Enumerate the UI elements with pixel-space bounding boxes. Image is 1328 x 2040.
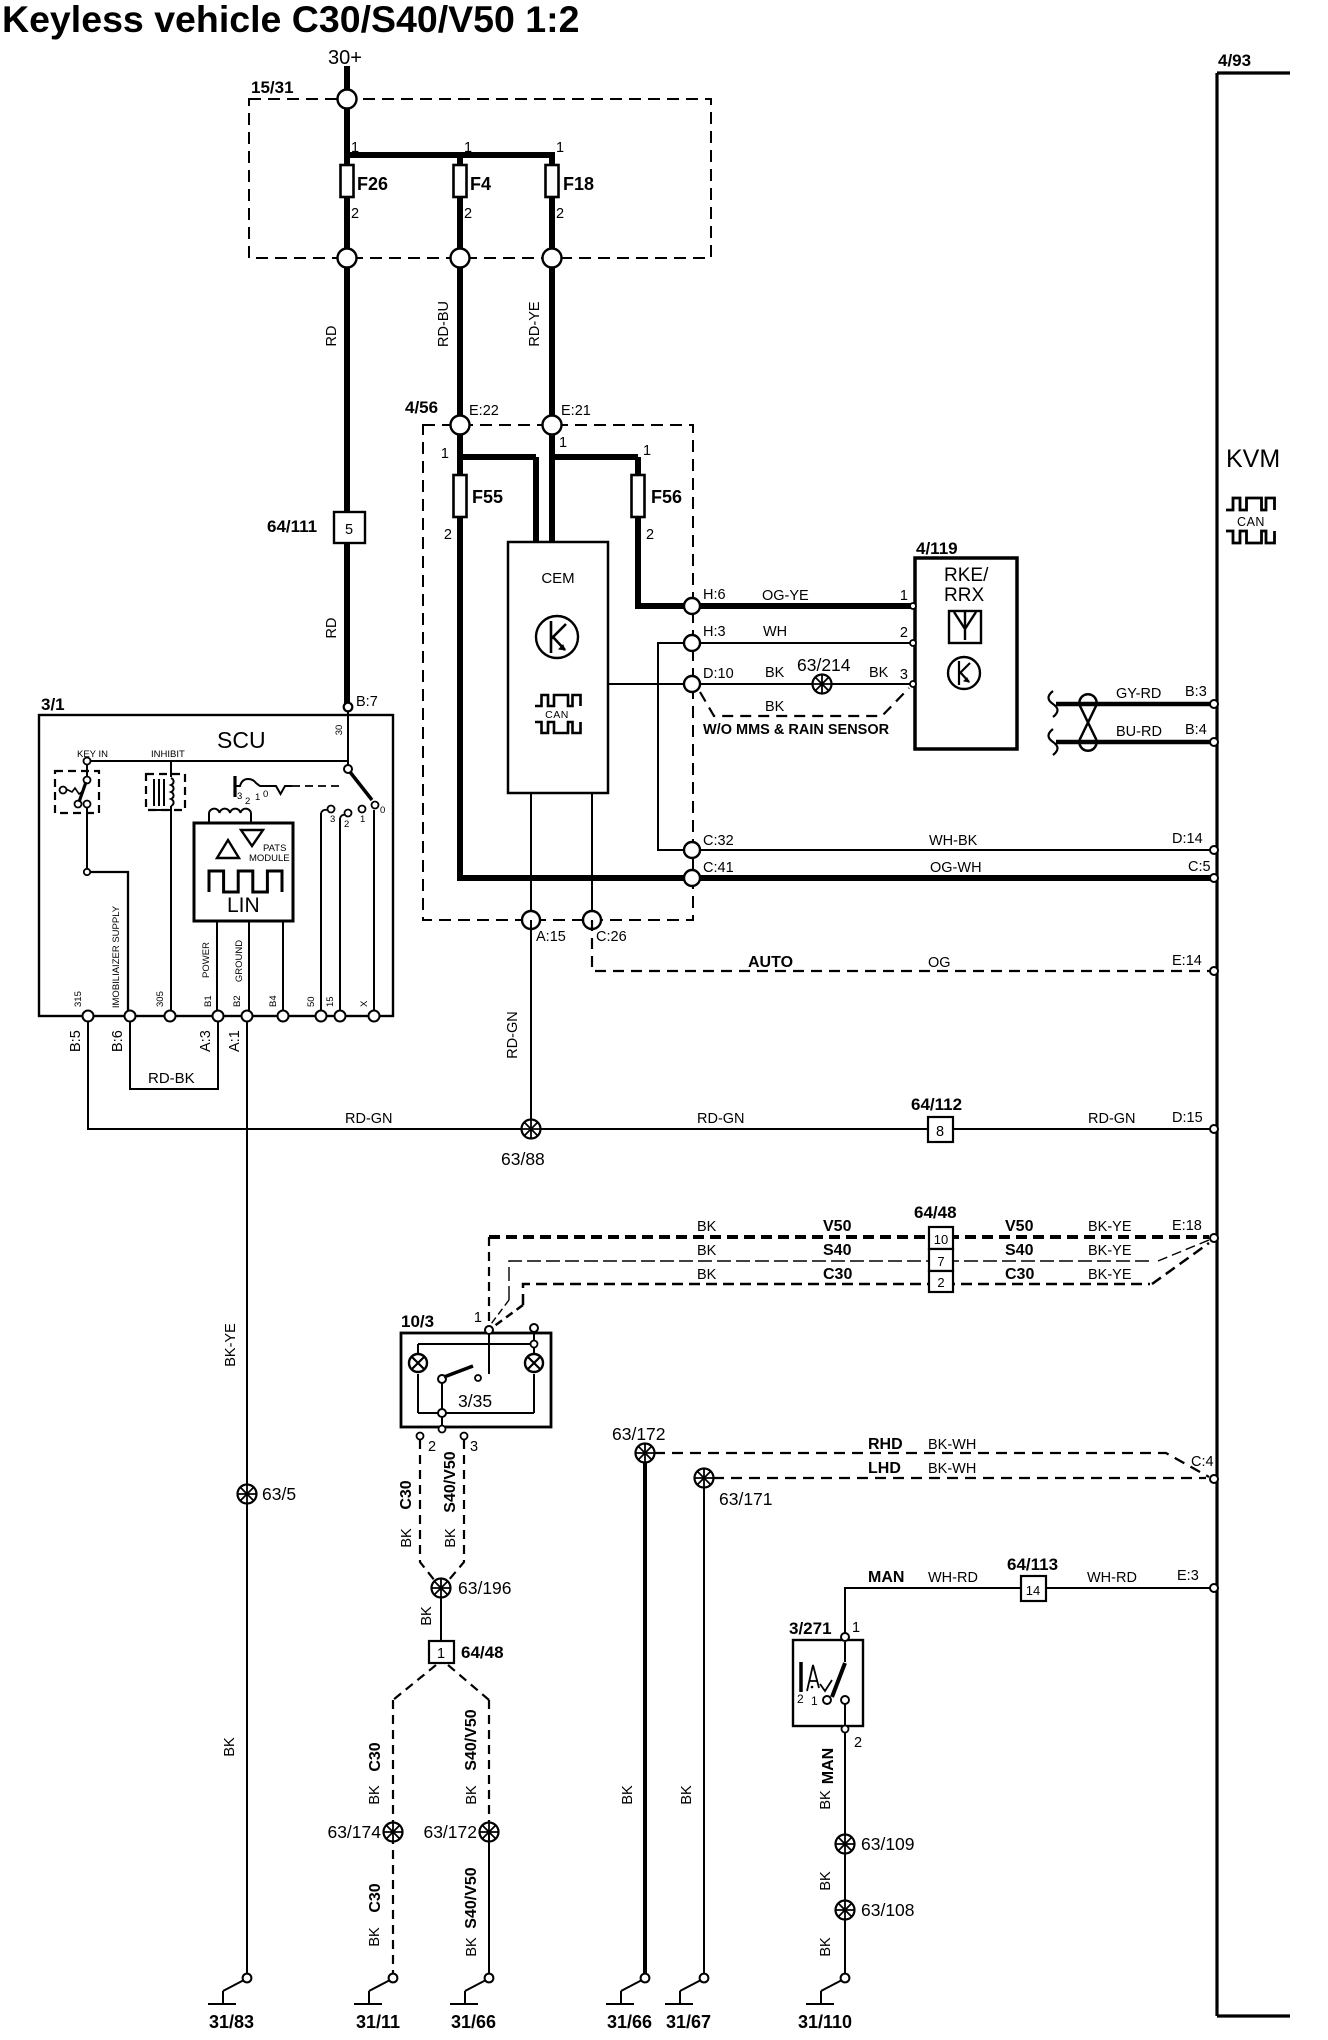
wire RD lower [344,543,350,706]
module 4/93 KVM box [1215,73,1218,2016]
svg-text:B:6: B:6 [110,1030,126,1052]
10/3 pin 1 [485,1326,493,1334]
svg-text:RHD: RHD [868,1436,903,1453]
svg-text:63/88: 63/88 [501,1149,545,1169]
wire C30 BK to 31/11 [392,1700,394,1978]
junction 15/31 bottom F26 [338,249,357,268]
RKE pin 3 [910,681,916,687]
svg-text:8: 8 [936,1124,944,1140]
junction 15/31 bottom F4 [451,249,470,268]
svg-text:BK: BK [869,665,889,681]
svg-text:2: 2 [556,206,564,222]
3/271 internals [844,1642,846,1662]
svg-text:E:21: E:21 [561,403,591,419]
10/3 right pin wire [533,1331,535,1353]
junction D:10 [684,676,700,692]
wire F55 branch [457,425,463,477]
SCU main switch [344,765,352,773]
module 4/119 RKE/RRX box [915,558,1017,749]
svg-text:B:4: B:4 [1185,722,1207,738]
node D:14 [1210,846,1218,854]
svg-text:WH-BK: WH-BK [929,833,978,849]
wire F56 branch [549,425,555,544]
svg-text:BK-YE: BK-YE [1088,1267,1132,1283]
svg-text:RD-GN: RD-GN [697,1111,745,1127]
svg-text:BK: BK [464,1937,480,1957]
svg-text:7: 7 [937,1254,944,1269]
wire RD-GN from A:15 to 63/88 [530,920,532,1129]
svg-text:RRX: RRX [944,585,984,606]
svg-text:H:6: H:6 [703,587,726,603]
svg-text:63/196: 63/196 [458,1578,512,1598]
wire BK thick to 31/66 [643,1453,647,1978]
wire CEM C:26 pin [591,793,593,920]
svg-text:C:4: C:4 [1191,1454,1214,1470]
svg-text:Keyless vehicle C30/S40/V50 1:: Keyless vehicle C30/S40/V50 1:2 [2,0,579,40]
svg-text:S40/V50: S40/V50 [442,1451,459,1512]
svg-text:63/174: 63/174 [327,1822,381,1842]
svg-text:BK: BK [399,1528,415,1548]
junction 15/31 bottom F18 [543,249,562,268]
twisted pair symbol [1049,691,1058,717]
svg-text:64/48: 64/48 [461,1643,504,1662]
svg-text:1: 1 [464,140,472,156]
KEY IN switch [55,771,99,813]
svg-text:3/35: 3/35 [458,1391,492,1411]
node B:4 [1210,738,1218,746]
node B:3 [1210,700,1218,708]
svg-text:WH: WH [763,624,787,640]
svg-text:X: X [359,1000,370,1007]
svg-text:C30: C30 [367,1742,384,1771]
10/3 pin 3 [461,1433,468,1440]
svg-text:S40/V50: S40/V50 [463,1867,480,1928]
svg-text:B4: B4 [268,995,279,1007]
svg-text:63/172: 63/172 [612,1424,666,1444]
svg-text:BK: BK [765,699,785,715]
wire RD-GN row [88,1021,1213,1129]
svg-text:W/O MMS & RAIN SENSOR: W/O MMS & RAIN SENSOR [703,722,890,738]
svg-text:10: 10 [934,1232,948,1247]
svg-text:BK: BK [697,1219,717,1235]
PATS triangles [217,840,239,858]
PATS coil [208,813,210,823]
junction C:41 [684,870,700,886]
svg-text:31/66: 31/66 [451,2012,496,2032]
svg-text:1: 1 [852,1620,860,1636]
connector 64/112 pin 8 [928,1117,953,1142]
svg-text:GROUND: GROUND [234,940,245,982]
fuse F55 [454,475,467,517]
svg-text:D:14: D:14 [1172,831,1203,847]
fuse F4 [454,165,467,197]
svg-text:3: 3 [900,667,908,683]
svg-text:IMOBILIAIZER SUPPLY: IMOBILIAIZER SUPPLY [111,905,122,1008]
svg-text:H:3: H:3 [703,624,726,640]
svg-text:MAN: MAN [868,1569,904,1586]
wire C30 split [393,1665,436,1700]
svg-text:63/214: 63/214 [797,655,851,675]
PATS LIN wave [209,871,282,892]
junction H:3 [684,635,700,651]
splice 63/88 [522,1120,541,1139]
svg-text:63/171: 63/171 [719,1489,773,1509]
module 4/56 dashed outline [423,425,693,920]
wire LHD BK-WH dashed [713,1477,1206,1479]
wire C30 row [523,1284,1150,1305]
wire WH-BK row [692,849,1213,851]
ground 31/11 [389,1974,398,1983]
wire RHD BK-WH dashed [654,1453,1209,1477]
ground 31/67 [700,1974,709,1983]
svg-text:1: 1 [255,792,260,803]
wire H:3 to C:32 internal [658,643,692,850]
svg-text:BK: BK [367,1785,383,1805]
10/3 top right pin [530,1324,538,1332]
svg-text:3/1: 3/1 [41,695,65,714]
svg-text:31/67: 31/67 [666,2012,711,2032]
junction E:22 [451,416,470,435]
module 3/271 box [793,1640,863,1726]
ground 31/110 [841,1974,850,1983]
SCU pin 305 [165,1011,176,1022]
RKE pin 1 [910,603,916,609]
10/3 lamp right [525,1354,543,1372]
svg-text:RKE/: RKE/ [944,565,989,586]
svg-text:OG-YE: OG-YE [762,588,809,604]
CEM CAN symbol [535,695,581,706]
svg-text:B:3: B:3 [1185,684,1207,700]
svg-text:BK: BK [818,1871,834,1891]
svg-text:MAN: MAN [820,1748,837,1784]
svg-text:B:7: B:7 [356,694,378,710]
svg-text:OG-WH: OG-WH [930,860,982,876]
wire pin 15 [339,818,341,1016]
svg-text:D:10: D:10 [703,666,734,682]
svg-text:INHIBIT: INHIBIT [151,749,185,760]
svg-text:50: 50 [306,996,317,1007]
ground 31/66 left [485,1974,494,1983]
svg-text:BK: BK [222,1737,238,1757]
wire F55 to C:41 [457,514,463,881]
svg-text:4/93: 4/93 [1218,51,1251,70]
svg-text:B:5: B:5 [68,1030,84,1052]
svg-text:C:32: C:32 [703,833,734,849]
SCU pin A:3 [213,1011,224,1022]
svg-text:D:15: D:15 [1172,1110,1203,1126]
10/3 lamp left [409,1354,427,1372]
svg-text:F26: F26 [357,174,388,194]
wire BK to 64/48 pin 1 [440,1598,442,1641]
SCU pin X [369,1011,380,1022]
svg-text:30: 30 [334,725,345,736]
svg-text:WH-RD: WH-RD [1087,1570,1137,1586]
svg-text:63/108: 63/108 [861,1900,915,1920]
svg-text:E:3: E:3 [1177,1568,1199,1584]
wire V50 BK-YE row [489,1235,1209,1239]
wire pin 50 [320,813,322,1016]
svg-text:4/56: 4/56 [405,398,438,417]
svg-text:BK-YE: BK-YE [1088,1219,1132,1235]
svg-text:305: 305 [155,991,166,1007]
svg-text:OG: OG [928,955,951,971]
svg-text:14: 14 [1026,1583,1040,1598]
wire RD-YE [549,196,555,425]
svg-text:RD-YE: RD-YE [527,301,543,346]
svg-text:B2: B2 [232,995,243,1007]
svg-text:S40: S40 [1005,1242,1034,1259]
wire GY-RD [1056,702,1213,707]
svg-text:64/113: 64/113 [1007,1555,1058,1574]
svg-text:RD-GN: RD-GN [1088,1111,1136,1127]
svg-text:RD: RD [324,326,340,347]
wire PATS ground pin [248,921,250,1016]
wire S40/V50 BK to 31/66 [488,1700,490,1832]
svg-text:BK: BK [464,1785,480,1805]
svg-text:5: 5 [345,522,353,538]
svg-text:GY-RD: GY-RD [1116,686,1161,702]
wire fuse bus [344,152,555,158]
svg-text:C:5: C:5 [1188,859,1211,875]
svg-text:E:22: E:22 [469,403,499,419]
svg-text:2: 2 [351,206,359,222]
svg-text:C:26: C:26 [596,929,627,945]
junction H:6 [684,598,700,614]
CEM K symbol [536,616,578,658]
svg-text:S40/V50: S40/V50 [463,1709,480,1770]
svg-text:2: 2 [646,527,654,543]
svg-text:F4: F4 [470,174,491,194]
svg-text:V50: V50 [823,1218,852,1235]
svg-text:2: 2 [900,625,908,641]
10/3 top inner contact [531,1341,538,1348]
node C:5 [1210,874,1218,882]
splice 63/174 [384,1823,403,1842]
splice 63/108 [836,1901,855,1920]
module 3/1 SCU box [39,715,393,1016]
svg-text:31/66: 31/66 [607,2012,652,2032]
svg-text:CAN: CAN [545,709,569,721]
fusebox 15/31 dashed outline [249,99,711,258]
SCU pin B4 [278,1011,289,1022]
svg-text:1: 1 [360,814,365,825]
svg-text:KVM: KVM [1226,445,1280,473]
svg-text:RD-GN: RD-GN [345,1111,393,1127]
svg-text:3: 3 [237,791,242,802]
svg-text:1: 1 [556,140,564,156]
wire pin X [373,810,375,1016]
svg-text:64/111: 64/111 [267,517,317,536]
10/3 inner top wire [418,1343,534,1345]
connector 64/113 pin 14 [1021,1576,1046,1601]
svg-text:2: 2 [245,796,250,807]
svg-text:A:15: A:15 [536,929,566,945]
junction A:15 [522,911,540,929]
wire WH row [692,642,913,644]
wire 30+ feed [344,66,350,166]
svg-text:2: 2 [344,819,349,830]
svg-text:F56: F56 [651,487,682,507]
svg-text:BK: BK [818,1937,834,1957]
10/3 switch arm 3/35 [488,1333,490,1374]
fuse F56 [632,475,645,517]
svg-text:15/31: 15/31 [251,78,294,97]
svg-text:1: 1 [811,1694,818,1708]
wire CEM D:10 stub [608,683,692,685]
svg-text:B1: B1 [203,995,214,1007]
svg-text:BK-YE: BK-YE [1088,1243,1132,1259]
svg-text:64/112: 64/112 [911,1095,962,1114]
splice 63/109 [836,1835,855,1854]
svg-text:0: 0 [263,789,268,800]
svg-text:POWER: POWER [201,942,212,978]
svg-text:C30: C30 [1005,1266,1034,1283]
wire MAN BK to 31/110 [844,1732,846,1978]
svg-text:63/109: 63/109 [861,1834,915,1854]
svg-text:1: 1 [474,1310,482,1326]
svg-text:1: 1 [351,140,359,156]
svg-text:10/3: 10/3 [401,1312,434,1331]
wire CEM A:15 pin [530,793,532,920]
junction E:21 [543,416,562,435]
wire PATS power pin [216,921,218,1016]
svg-text:2: 2 [937,1275,944,1290]
connector 64/111 pin 5 [334,512,365,543]
10/3 pin 2 [417,1433,424,1440]
svg-text:3: 3 [470,1439,478,1455]
svg-text:E:18: E:18 [1172,1218,1202,1234]
svg-text:C30: C30 [367,1883,384,1912]
connector 64/48 pin 1 [429,1641,454,1663]
svg-text:1: 1 [643,443,651,459]
fuse F26 [341,165,354,197]
SCU pin 50 [316,1011,327,1022]
svg-text:BK: BK [367,1927,383,1947]
svg-text:2: 2 [797,1692,804,1706]
junction C:32 [684,842,700,858]
svg-text:BK: BK [697,1267,717,1283]
svg-text:BK-YE: BK-YE [223,1323,239,1367]
svg-text:RD-BK: RD-BK [148,1070,195,1087]
node E:3 [1210,1584,1218,1592]
svg-text:A:1: A:1 [227,1030,243,1052]
svg-text:2: 2 [854,1735,862,1751]
SCU pin B:5 [83,1011,94,1022]
wire KEY IN down [86,807,88,871]
wire PATS B4 pin [282,921,284,1016]
svg-text:3/271: 3/271 [789,1619,832,1638]
wire BU-RD [1056,740,1213,745]
svg-text:15: 15 [325,996,336,1007]
svg-text:F18: F18 [563,174,594,194]
node B:7 [347,710,349,766]
wire BK to 31/67 [703,1478,705,1978]
node C:4 [1210,1475,1218,1483]
wire S40 row [509,1261,1150,1300]
svg-text:1: 1 [559,435,567,451]
wire RD-BK loop [130,1021,218,1089]
svg-text:1: 1 [900,588,908,604]
SCU pin B:6 [125,1011,136,1022]
svg-text:C:41: C:41 [703,860,734,876]
svg-text:MODULE: MODULE [249,853,290,864]
svg-text:31/83: 31/83 [209,2012,254,2032]
svg-text:BK: BK [443,1528,459,1548]
svg-text:S40: S40 [823,1242,852,1259]
svg-text:2: 2 [444,527,452,543]
svg-text:BK: BK [620,1785,636,1805]
PATS module box [194,823,293,921]
svg-text:31/110: 31/110 [798,2012,852,2032]
junction C:26 [583,911,601,929]
splice 63/172 lower [480,1823,499,1842]
CAN symbol in KVM [1226,498,1275,510]
svg-text:64/48: 64/48 [914,1203,957,1222]
wire immobilizer supply [90,872,128,1016]
svg-text:V50: V50 [1005,1218,1034,1235]
svg-text:63/5: 63/5 [262,1484,296,1504]
wire S40/V50 BK from pin 3 [448,1440,464,1581]
wire F56 to H:6 [635,514,641,609]
svg-text:BK-WH: BK-WH [928,1461,976,1477]
splice 63/214 [813,675,832,694]
svg-text:31/11: 31/11 [356,2012,400,2032]
wire OG-WH row [692,875,1213,881]
splice 63/5 [238,1485,257,1504]
wire AUTO OG dashed [592,920,1213,971]
10/3 inner bottom wire [417,1374,419,1413]
wire OG-YE row [692,603,915,609]
svg-text:BK: BK [419,1606,435,1626]
svg-text:CAN: CAN [1237,515,1265,529]
wire W/O MMS dashed bypass [700,688,909,716]
CEM box [508,542,608,793]
3/271 pin 2 [842,1726,849,1733]
svg-text:BK: BK [818,1790,834,1810]
svg-text:C30: C30 [398,1480,415,1509]
wire S40/V50 split [448,1665,489,1700]
svg-text:315: 315 [73,991,84,1007]
svg-text:KEY IN: KEY IN [77,749,108,760]
svg-text:LHD: LHD [868,1460,901,1477]
svg-text:A:3: A:3 [198,1030,214,1052]
svg-text:30+: 30+ [328,47,362,69]
antenna symbol [949,611,981,643]
splice 63/171 [695,1469,714,1488]
SCU pin A:1 [242,1011,253,1022]
wire INHIBIT down [170,806,172,1016]
splice 63/196 [432,1579,451,1598]
svg-text:BK-WH: BK-WH [928,1437,976,1453]
node D:15 [1210,1125,1218,1133]
wire MAN WH-RD row [845,1588,1213,1636]
svg-text:63/172: 63/172 [423,1822,477,1842]
svg-text:2: 2 [428,1439,436,1455]
svg-text:LIN: LIN [227,894,260,917]
svg-text:SCU: SCU [217,727,266,753]
svg-text:C30: C30 [823,1266,852,1283]
svg-text:WH-RD: WH-RD [928,1570,978,1586]
ground 31/66 right [641,1974,650,1983]
svg-text:BK: BK [679,1785,695,1805]
junction 15/31 top [338,90,357,109]
wire BK row to 63/214 [692,683,913,685]
svg-text:BU-RD: BU-RD [1116,724,1162,740]
RKE pin 2 [910,640,916,646]
svg-text:1: 1 [437,1646,445,1662]
svg-text:E:14: E:14 [1172,953,1202,969]
wire C30 BK from pin 2 [420,1440,435,1581]
